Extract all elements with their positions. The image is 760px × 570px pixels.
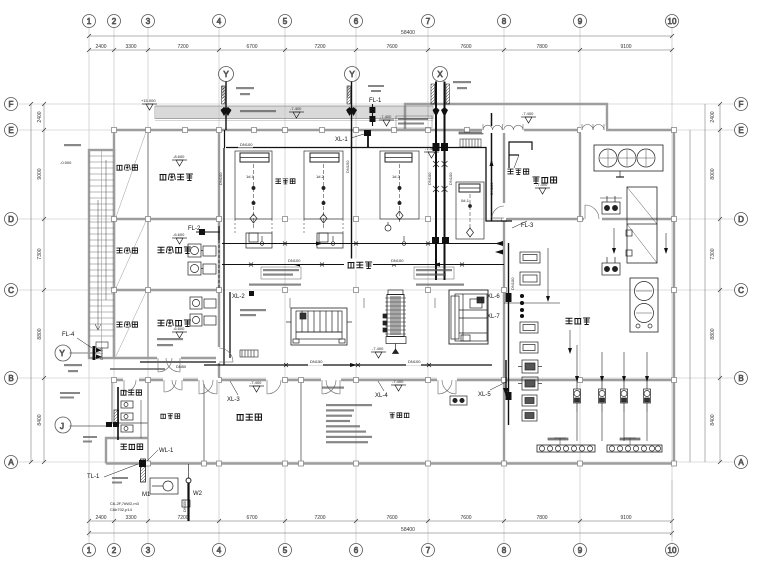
axis bubble 10 bottom	[666, 544, 679, 557]
wall toilet west	[111, 380, 113, 423]
left dim ticks	[29, 102, 46, 464]
axis bubble 8 bottom	[498, 544, 511, 557]
valve blobs X riser	[432, 143, 449, 243]
svg-text:1#-2: 1#-2	[316, 174, 325, 179]
elevation mark metering	[535, 182, 550, 194]
bottom extension lines	[88, 480, 90, 537]
door B wall double 1	[199, 380, 217, 394]
col8 stack open unit 3	[520, 322, 538, 333]
valve blob col8 b	[506, 392, 512, 400]
axis bubble 7 bottom	[422, 544, 435, 557]
riser bubble Y left	[55, 345, 100, 361]
svg-text:8: 8	[502, 546, 507, 555]
svg-text:E: E	[8, 126, 13, 135]
grid line col 6	[355, 27, 357, 543]
radiator comb south wall	[240, 350, 258, 357]
elevation mark hall south 2	[391, 379, 406, 391]
wall toilet east col3	[147, 380, 149, 463]
grid line col 7	[427, 27, 429, 543]
svg-text:XL-2: XL-2	[232, 294, 245, 300]
room label boiler hall	[348, 262, 373, 269]
bottom segment dim line	[89, 520, 672, 522]
pipe hall west vertical	[223, 148, 225, 365]
svg-text:5: 5	[283, 546, 288, 555]
right dim ticks	[718, 102, 722, 464]
softened water tanks 2 circles	[630, 278, 658, 332]
svg-text:7600: 7600	[460, 44, 471, 50]
svg-text:M1: M1	[142, 492, 151, 498]
axis bubble 3 top	[142, 15, 155, 28]
toilet partition pipe	[117, 387, 119, 440]
note Y left elevation	[64, 364, 82, 372]
boiler unit U1	[235, 151, 272, 242]
pipe col8 vertical	[508, 243, 510, 425]
note stair name	[64, 144, 81, 146]
svg-text:A: A	[8, 458, 14, 467]
svg-text:-0.500: -0.500	[60, 160, 72, 165]
burner front U1	[246, 233, 272, 248]
svg-text:8800: 8800	[710, 328, 716, 339]
bottom dim ticks	[87, 519, 674, 535]
wall F bump north	[405, 104, 607, 130]
svg-text:DN100: DN100	[220, 85, 225, 98]
junction dots col8	[520, 294, 523, 317]
door E wall double 2	[582, 124, 604, 130]
stair treads	[89, 156, 114, 336]
axis bubble 9 top	[574, 15, 587, 28]
riser bubble Y2	[345, 67, 360, 82]
room label supply fan room 2	[158, 320, 191, 327]
stair enclosure	[89, 150, 114, 358]
axis bubble 4 bottom	[213, 544, 226, 557]
column markers	[112, 128, 677, 467]
room label distribution room	[389, 413, 409, 418]
door gap hall west	[216, 347, 222, 363]
col8 stack open unit 4	[520, 342, 538, 353]
room label blast vent hall	[275, 179, 295, 184]
wall toilet bottom	[112, 422, 148, 424]
note hall spec line 2	[416, 284, 464, 286]
big boiler BC	[449, 290, 488, 344]
floor drain pair distribution room	[450, 396, 467, 405]
valve blobs Y2	[0, 0, 1, 1]
svg-text:DN050: DN050	[182, 499, 187, 512]
shaft diagonal supply1	[116, 221, 146, 288]
svg-text:3: 3	[146, 17, 151, 26]
svg-text:-7.400: -7.400	[380, 114, 392, 119]
svg-text:2400: 2400	[95, 44, 106, 50]
col8 stack pump 1	[518, 360, 542, 373]
note hall spec line 1	[249, 284, 301, 286]
door gap E wall 1	[482, 126, 524, 133]
axis bubble 2 bottom	[108, 544, 121, 557]
door corridor	[164, 380, 182, 392]
svg-text:XL-1: XL-1	[335, 137, 348, 143]
svg-text:5: 5	[283, 17, 288, 26]
svg-text:DN100: DN100	[346, 85, 351, 98]
note E wall hall	[459, 132, 483, 134]
axis bubble 4 top	[213, 15, 226, 28]
svg-text:D: D	[8, 215, 14, 224]
note distribution specs	[326, 404, 372, 443]
svg-text:7800: 7800	[536, 515, 547, 521]
wall row E	[114, 129, 674, 131]
top dim numbers	[95, 30, 631, 50]
svg-text:9: 9	[578, 546, 583, 555]
svg-text:FL-4: FL-4	[62, 332, 75, 338]
svg-text:4: 4	[217, 17, 222, 26]
wall fanroom bottom	[114, 357, 219, 359]
elevation mark +15	[141, 98, 157, 110]
svg-text:6: 6	[354, 17, 359, 26]
elevation mark supply room2	[172, 326, 187, 338]
axis bubble 6 bottom	[350, 544, 363, 557]
note F wall left	[396, 116, 432, 128]
wall hall east col8	[503, 130, 505, 464]
grid line col 10	[671, 27, 673, 543]
svg-text:7: 7	[426, 17, 431, 26]
door B wall double 3	[322, 380, 340, 394]
leader XL-4	[378, 381, 384, 391]
svg-text:XL-5: XL-5	[478, 392, 491, 398]
wall control east	[300, 380, 302, 463]
note fan louver 2	[240, 309, 266, 316]
svg-text:8000: 8000	[710, 168, 716, 179]
svg-text:9: 9	[578, 17, 583, 26]
pipe gas entry vertical	[491, 113, 493, 221]
door D wall right	[585, 205, 599, 219]
svg-text:-6.600: -6.600	[173, 326, 185, 331]
big boiler BB vertical	[383, 290, 406, 354]
room label supply shaft 2	[116, 322, 137, 327]
col8 stack pump 3	[522, 395, 537, 406]
note TL elevation	[112, 477, 128, 484]
svg-text:-6.600: -6.600	[173, 232, 185, 237]
door gap fanroom bottom	[157, 355, 181, 361]
svg-text:Y: Y	[223, 70, 229, 79]
doors	[123, 124, 606, 394]
elevation mark supply room1	[172, 232, 187, 244]
svg-text:58400: 58400	[401, 527, 415, 533]
svg-text:10: 10	[668, 546, 677, 555]
big boiler BA	[286, 308, 352, 345]
room label exhaust shaft	[116, 165, 137, 170]
svg-text:DN50: DN50	[176, 364, 187, 369]
note hall param box 2	[414, 267, 454, 279]
pipe DN50 fanroom bottom	[140, 361, 219, 363]
riser pipe X twin a	[431, 82, 440, 281]
wall hall west col4	[218, 130, 220, 380]
pipe main supply hall	[222, 243, 500, 245]
grid line col 4	[218, 27, 220, 543]
pump feeders	[504, 248, 649, 441]
axis bubble F left	[5, 98, 18, 111]
header labels	[548, 438, 640, 440]
radiator comb north wall left	[96, 342, 108, 348]
door hall east	[492, 206, 504, 218]
left dim line inner	[43, 104, 45, 462]
fan unit pair room C-B	[190, 297, 216, 326]
svg-text:WL-1: WL-1	[159, 448, 174, 454]
axis bubble E right	[735, 124, 748, 137]
note J elevation	[83, 436, 97, 443]
left dim line outer	[30, 104, 32, 462]
sump pit outside	[150, 478, 190, 507]
shaft diagonal supply2	[116, 292, 146, 356]
svg-text:7600: 7600	[460, 515, 471, 521]
door gap B wall 1	[198, 377, 218, 384]
elevation mark hall mid	[371, 346, 386, 358]
door gap B wall 2	[266, 377, 282, 384]
svg-text:+15.000: +15.000	[141, 98, 156, 103]
svg-text:DN100: DN100	[408, 359, 421, 364]
blast vent frame metering	[509, 142, 532, 168]
svg-text:6: 6	[354, 546, 359, 555]
svg-text:FL-3: FL-3	[521, 223, 534, 229]
wall row A	[106, 462, 674, 464]
svg-text:58400: 58400	[401, 30, 415, 36]
hatches	[89, 82, 450, 359]
svg-text:D: D	[738, 215, 744, 224]
leader XL-1	[351, 130, 371, 147]
svg-text:DN100: DN100	[448, 172, 453, 185]
svg-text:3: 3	[146, 546, 151, 555]
door gap B wall 4	[437, 377, 457, 384]
svg-text:F: F	[739, 100, 744, 109]
svg-text:X: X	[437, 70, 443, 79]
room label toilet	[120, 390, 141, 395]
door gap E wall 2	[581, 126, 606, 133]
W2 riser	[186, 464, 191, 521]
right dim line inner	[704, 104, 706, 462]
svg-text:-7.400: -7.400	[392, 379, 404, 384]
svg-text:B: B	[738, 374, 743, 383]
svg-text:7600: 7600	[386, 44, 397, 50]
riser pipe X twin b	[441, 82, 450, 281]
svg-text:7300: 7300	[37, 248, 43, 259]
wall metering east col9	[579, 130, 581, 219]
svg-text:XL-3: XL-3	[227, 397, 240, 403]
wall col3 shafts	[147, 130, 149, 358]
svg-text:-7.400: -7.400	[522, 111, 534, 116]
svg-text:DN100: DN100	[489, 182, 494, 195]
riser pipe Y1	[221, 82, 232, 131]
wall east col10	[673, 130, 675, 464]
svg-text:XL-4: XL-4	[375, 393, 388, 399]
svg-text:DN100: DN100	[427, 172, 432, 185]
svg-text:2400: 2400	[95, 515, 106, 521]
TL-1 stub	[0, 0, 1, 1]
svg-text:1#-1: 1#-1	[246, 174, 255, 179]
svg-text:8800: 8800	[37, 328, 43, 339]
svg-text:7800: 7800	[536, 44, 547, 50]
FL-3 connection blobs	[495, 241, 503, 255]
walls	[89, 104, 674, 464]
boiler unit U3	[380, 151, 419, 231]
col8 stack open unit 2	[520, 272, 540, 285]
pipe DN150 south	[204, 364, 492, 366]
note ramp slope	[240, 110, 276, 112]
boiler unit U2	[304, 151, 343, 242]
axis bubble B right	[735, 372, 748, 385]
door gap D wall right	[584, 216, 602, 222]
svg-text:DN100: DN100	[218, 172, 223, 185]
room label supply fan room 1	[158, 247, 191, 254]
svg-text:-7.400: -7.400	[290, 106, 302, 111]
axis bubble D right	[735, 213, 748, 226]
column markers row C	[283, 288, 288, 293]
svg-text:7200: 7200	[177, 44, 188, 50]
XL-2 blob	[249, 291, 254, 296]
door hall west	[219, 348, 233, 362]
WL-1 riser pipe	[104, 450, 158, 482]
svg-text:2: 2	[112, 546, 117, 555]
door toilet	[124, 380, 136, 392]
wall row B	[114, 379, 674, 381]
room label exhaust fan room	[160, 174, 193, 181]
toilet riser bar	[114, 410, 119, 426]
elevation mark hall south 1	[249, 380, 264, 392]
svg-text:C: C	[738, 286, 744, 295]
boiler unit U4	[456, 182, 484, 239]
note hall param box 1	[261, 267, 301, 279]
svg-text:Y: Y	[349, 70, 355, 79]
wall toolroom	[106, 438, 148, 464]
riser Y1 drop	[224, 130, 226, 148]
note vent setting	[322, 387, 344, 389]
pump pair A	[600, 196, 622, 214]
col8 stack pump 2	[518, 377, 542, 390]
svg-text:DN100: DN100	[391, 258, 404, 263]
bottom dim numbers	[95, 515, 631, 533]
pump row 4 pumps	[574, 380, 651, 412]
axis bubble 3 bottom	[142, 544, 155, 557]
svg-text:2400: 2400	[37, 111, 43, 122]
leader XL-3	[230, 381, 238, 395]
svg-text:7300: 7300	[710, 248, 716, 259]
pipe return hall	[222, 264, 504, 266]
room label metering room	[533, 177, 557, 184]
room label pump room	[566, 318, 591, 325]
equipment	[96, 98, 663, 507]
svg-text:TL-1: TL-1	[87, 474, 100, 480]
svg-text:9100: 9100	[620, 515, 631, 521]
svg-text:DN150: DN150	[310, 359, 323, 364]
col8 stack pump 4	[522, 410, 537, 421]
svg-text:10: 10	[668, 17, 677, 26]
room label supply shaft 1	[116, 248, 137, 253]
riser bar Y left	[0, 0, 1, 1]
svg-text:C: C	[8, 286, 14, 295]
wall row C left wing	[114, 289, 219, 291]
axis bubble 9 bottom	[574, 544, 587, 557]
svg-text:2400: 2400	[710, 111, 716, 122]
svg-text:Y: Y	[59, 349, 65, 358]
arrowheads on pipes	[293, 242, 440, 368]
label white backings	[238, 141, 421, 366]
axis bubble 5 top	[279, 15, 292, 28]
svg-text:4: 4	[217, 546, 222, 555]
grid line row E	[18, 129, 734, 131]
metering room pipe	[0, 0, 1, 1]
door B wall single 2	[267, 380, 281, 394]
axis bubble 10 top	[666, 15, 679, 28]
elevation mark vestibule b	[521, 111, 536, 123]
svg-text:8400: 8400	[710, 414, 716, 425]
axis bubble 2 top	[108, 15, 121, 28]
pipes	[77, 104, 668, 521]
svg-text:1#-3: 1#-3	[392, 174, 401, 179]
grid line col 2	[113, 27, 115, 543]
water softener tall unit	[626, 187, 657, 263]
axis bubble 5 bottom	[279, 544, 292, 557]
room label control room	[237, 414, 262, 420]
svg-text:7200: 7200	[177, 515, 188, 521]
supply room pipes vertical	[218, 240, 220, 290]
column markers row B	[112, 378, 117, 383]
axis bubble 1 bottom	[83, 544, 96, 557]
axis bubble 6 top	[350, 15, 363, 28]
svg-text:3300: 3300	[125, 515, 136, 521]
pipe DN100 upper	[226, 148, 512, 222]
svg-text:FL-2: FL-2	[188, 226, 201, 232]
wall row D right	[504, 218, 674, 220]
svg-text:DN100: DN100	[288, 258, 301, 263]
ramp hatched band north	[155, 106, 433, 121]
top overall dim line	[89, 35, 672, 37]
shaft diagonal exhaust	[116, 132, 146, 217]
svg-text:B: B	[8, 374, 13, 383]
svg-text:C6b702,p14: C6b702,p14	[110, 507, 133, 512]
svg-text:7200: 7200	[314, 515, 325, 521]
elevation mark pumproom low	[429, 157, 431, 159]
gas tanks 3 circles	[594, 145, 663, 177]
FL-1 stub pipe	[370, 104, 376, 126]
fanroom2 duct pipe	[229, 292, 231, 358]
burner front U2	[317, 233, 343, 248]
left Y leader blobs	[77, 338, 102, 360]
svg-text:9100: 9100	[620, 44, 631, 50]
room label tool room	[120, 444, 142, 450]
grid line col 8	[503, 27, 505, 543]
right dim numbers	[710, 111, 716, 425]
header manifold 2	[607, 438, 662, 452]
svg-text:-7.400: -7.400	[250, 380, 262, 385]
header manifold 1	[537, 438, 595, 452]
room label duty room	[160, 414, 179, 419]
svg-text:-8.600: -8.600	[173, 154, 185, 159]
svg-text:2: 2	[112, 17, 117, 26]
door fanroom double	[158, 358, 180, 372]
svg-text:7: 7	[426, 546, 431, 555]
elevation mark exhaust room	[172, 154, 187, 166]
column markers row E	[112, 128, 117, 133]
left dim numbers	[37, 111, 43, 425]
FL-2 assembly	[196, 226, 220, 240]
svg-text:J: J	[60, 422, 64, 431]
axis bubble E left	[5, 124, 18, 137]
svg-text:1: 1	[87, 17, 92, 26]
valve blob col8 a	[506, 293, 512, 302]
riser bubble Y1	[219, 67, 234, 82]
leader XL-5	[490, 382, 506, 390]
axis bubble A right	[735, 456, 748, 469]
right inner dim line	[689, 130, 691, 462]
svg-text:7200: 7200	[314, 44, 325, 50]
column markers row A	[146, 461, 151, 466]
svg-text:DN100: DN100	[510, 277, 515, 290]
svg-text:DN100: DN100	[240, 142, 253, 147]
